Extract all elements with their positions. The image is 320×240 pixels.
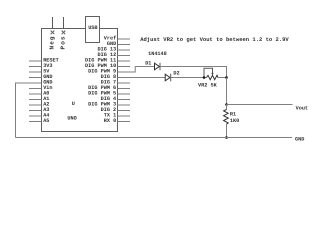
pin GND right bbox=[107, 41, 130, 47]
wire Vout tap bbox=[227, 104, 293, 106]
pin Vref bbox=[104, 36, 130, 42]
junction node A bbox=[225, 76, 228, 79]
svg-text:Neg: Neg bbox=[49, 35, 56, 49]
wire VR2 to node A bbox=[218, 77, 227, 79]
IC U Arduino UNO body bbox=[42, 29, 118, 132]
pin RESET bbox=[29, 58, 59, 64]
wire GND rail bbox=[16, 137, 293, 139]
pin DIG PWM 5 bbox=[88, 91, 130, 97]
pin Neg (top) bbox=[51, 17, 55, 34]
svg-text:UNO: UNO bbox=[67, 116, 76, 122]
pin A5 bbox=[29, 118, 49, 124]
pin A2 bbox=[29, 102, 49, 108]
wire node A to node Vout bbox=[226, 78, 228, 105]
resistor R1 bbox=[224, 105, 229, 138]
svg-text:U: U bbox=[72, 101, 75, 107]
pin DIG 2 bbox=[101, 107, 130, 113]
wire D2 cathode to VR2 bbox=[171, 77, 207, 79]
pin DIG PWM 6 bbox=[88, 85, 130, 91]
svg-text:D2: D2 bbox=[173, 71, 179, 77]
svg-text:Vout: Vout bbox=[296, 105, 308, 111]
svg-text:1N4148: 1N4148 bbox=[148, 51, 167, 57]
pin A3 bbox=[29, 107, 49, 113]
junction node Vout bbox=[225, 103, 228, 106]
USB connector bbox=[86, 17, 100, 43]
svg-text:A5: A5 bbox=[43, 118, 49, 124]
diode D2 bbox=[165, 74, 171, 82]
pin Pos (top) bbox=[62, 17, 66, 34]
svg-text:R1: R1 bbox=[230, 112, 236, 118]
wire DIG PWM 9 to D1 anode bbox=[118, 67, 155, 73]
pin DIG 7 bbox=[101, 80, 130, 86]
pin GND1 bbox=[29, 74, 53, 80]
svg-text:Adjust VR2 to get Vout to betw: Adjust VR2 to get Vout to between 1.2 to… bbox=[140, 36, 289, 43]
junction VR2 wiper node bbox=[203, 76, 206, 79]
pin DIG PWM 11 bbox=[85, 58, 130, 64]
diode D1 1N4148 bbox=[155, 63, 161, 71]
pin TX 1 bbox=[104, 113, 130, 119]
wire GND2 pin to GND rail bbox=[16, 83, 42, 138]
svg-text:USB: USB bbox=[88, 25, 97, 31]
variable resistor VR2 (rheostat) bbox=[204, 68, 218, 79]
pin RX 0 bbox=[104, 118, 130, 124]
pin DIG 12 bbox=[98, 52, 130, 58]
wire D1 cathode to node A bbox=[160, 67, 227, 78]
pin 5V bbox=[29, 69, 50, 75]
pin DIG 4 bbox=[101, 96, 130, 102]
pin A4 bbox=[29, 113, 49, 119]
pin 3V3 bbox=[29, 63, 53, 69]
pin DIG PWM 3 bbox=[88, 102, 130, 108]
pin A0 bbox=[29, 91, 49, 97]
pin A1 bbox=[29, 96, 49, 102]
svg-text:1K0: 1K0 bbox=[230, 118, 239, 124]
pin DIG 13 bbox=[98, 47, 130, 53]
pin GND2 bbox=[29, 80, 53, 86]
svg-text:RX 0: RX 0 bbox=[104, 118, 116, 124]
junction R1 to GND rail bbox=[225, 136, 228, 139]
svg-text:GND: GND bbox=[295, 136, 304, 142]
svg-text:Pos: Pos bbox=[60, 35, 67, 49]
pin DIG 8 bbox=[101, 74, 130, 80]
pin DIG PWM 9 bbox=[88, 69, 130, 75]
wire DIG 8 to D2 anode bbox=[118, 77, 166, 79]
svg-text:VR2 5K: VR2 5K bbox=[198, 83, 218, 89]
pin Vin bbox=[29, 85, 53, 91]
pin DIG PWM 10 bbox=[85, 63, 130, 69]
svg-text:D1: D1 bbox=[145, 61, 151, 67]
